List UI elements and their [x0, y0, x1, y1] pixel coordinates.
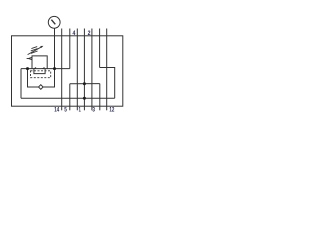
- svg-text:2: 2: [88, 30, 91, 37]
- wire regulator flow line y=68.6: [21, 68, 70, 70]
- wire jog from supply riser to right drop: [100, 68, 115, 99]
- junction dot bus4/y98.2: [83, 97, 86, 100]
- adjustment spring with arrow: [31, 47, 38, 54]
- wire bus 2 lower (port 5 line): [69, 84, 71, 111]
- svg-text:14: 14: [54, 106, 59, 113]
- gauge needle: [51, 20, 55, 25]
- svg-text:1: 1: [79, 106, 82, 113]
- inner passage U: [34, 69, 45, 74]
- svg-text:5: 5: [64, 106, 67, 113]
- wire horizontal link y=98 (supply rail): [21, 97, 115, 99]
- pilot feedback loop with orifice: [28, 69, 55, 87]
- wire bus 4 (port 1 supply channel): [83, 29, 85, 111]
- relief vent arrow: [27, 58, 29, 60]
- junction dot pilot tap: [26, 67, 29, 70]
- wire bus 7 (port 12 line): [106, 29, 108, 111]
- flow marks in regulator: [33, 67, 36, 69]
- enclosure (valve plate outline): [12, 36, 123, 106]
- wire left down-leg: [20, 69, 22, 99]
- dashed pilot enclosure: [31, 71, 51, 78]
- pressure regulator R1 body: [32, 56, 47, 69]
- orifice/nozzle diamond: [39, 85, 44, 90]
- svg-text:12: 12: [109, 106, 114, 113]
- wire bus 5 (port 2 channel): [91, 29, 93, 111]
- wire bus 6 upper (supply inlet riser): [99, 29, 101, 68]
- wire horizontal link y=83.7: [70, 83, 100, 85]
- svg-text:4: 4: [72, 30, 75, 37]
- svg-text:3: 3: [92, 106, 95, 113]
- pressure gauge G1: [48, 16, 60, 28]
- junction dot bus4/y83.7: [83, 82, 86, 85]
- wire bus 1 (port 14 line): [61, 29, 63, 111]
- wire bus 3 (port 4 channel): [76, 29, 78, 111]
- wire bus 6 lower (port 3 line): [99, 84, 101, 111]
- wire bus 2 upper (port 4 riser from regulator output): [69, 29, 71, 69]
- wire gauge stem: [54, 28, 56, 68]
- junction dot gauge tap: [53, 67, 56, 70]
